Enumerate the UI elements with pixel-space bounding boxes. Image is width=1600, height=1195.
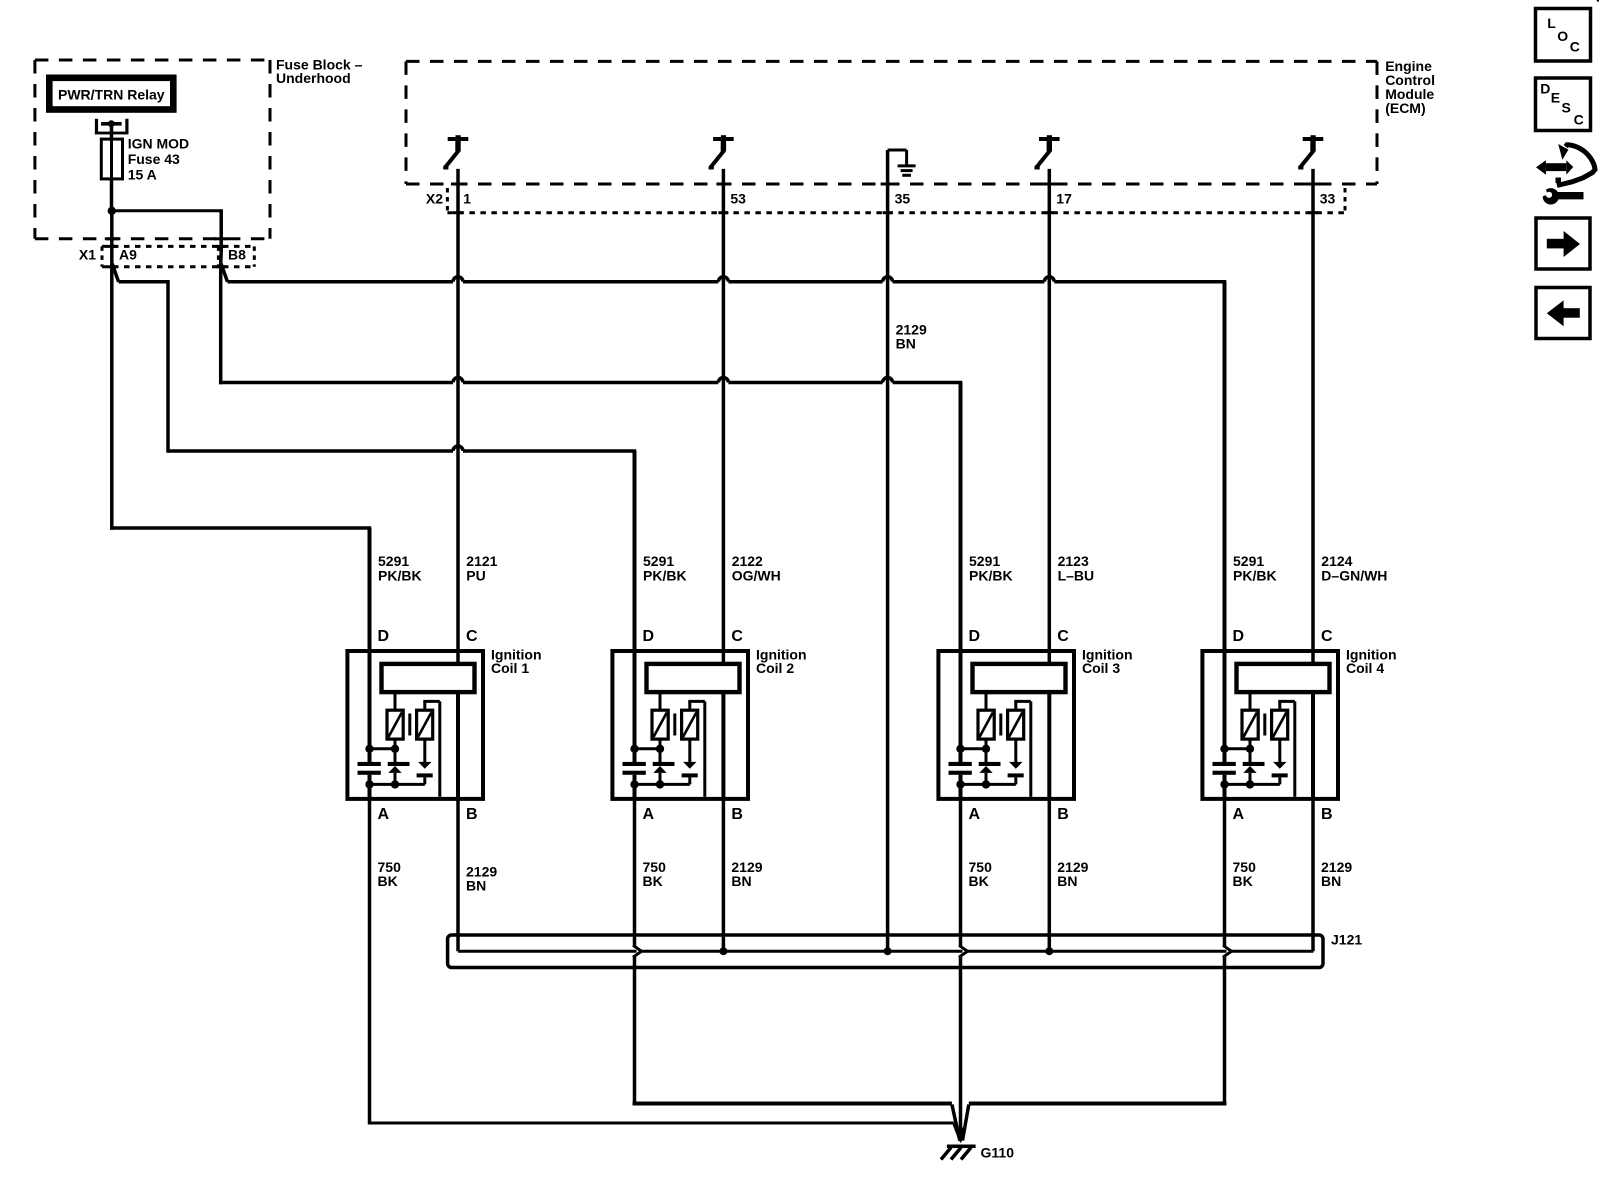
ignition coil 1: internal ground links and junctions <box>365 745 425 789</box>
svg-text:B: B <box>1057 806 1069 823</box>
svg-text:PK/BK: PK/BK <box>643 568 687 584</box>
svg-text:PWR/TRN Relay: PWR/TRN Relay <box>58 87 165 103</box>
ignition coil 3: winding L (with slash) <box>978 694 994 739</box>
ignition coil 1: D wire through case (with capacitor break) <box>368 528 372 764</box>
ignition coil 3: D wire through case (with capacitor break) <box>959 383 963 764</box>
icon: diagnostic navigation (arrows and wrench) <box>1536 144 1595 205</box>
wire 750 BK: coil4 A to ground line <box>1223 799 1227 1106</box>
ignition coil 2: zener diode (middle branch) <box>653 739 675 784</box>
ignition coil 2: internal ground links and junctions <box>630 745 690 789</box>
ignition coil 3: winding R (with slash) and secondary tap <box>1008 701 1031 797</box>
label: IGN MOD Fuse 43 15 A <box>128 136 189 183</box>
icon: DESC button <box>1536 78 1591 131</box>
fuse IGN MOD Fuse 43 15A <box>101 139 122 179</box>
svg-text:1: 1 <box>463 191 471 207</box>
svg-text:C: C <box>1057 628 1069 645</box>
ignition coil 1: C wire below primary <box>456 692 460 801</box>
label: Engine Control Module (ECM) <box>1385 58 1435 116</box>
ECM driver (transistor output) for pin 33 <box>1298 135 1323 169</box>
icon: back arrow button <box>1536 288 1590 339</box>
svg-text:53: 53 <box>730 191 746 207</box>
wire 2129 BN: coil1 B to splice J121 <box>456 799 460 951</box>
pin labels D C A B (coil 1) <box>378 628 479 823</box>
wire: fuse to junction <box>110 179 114 211</box>
ignition coil 4: capacitor on A-wire <box>1213 762 1236 775</box>
wire 2129 BN: coil3 B to splice J121 <box>1048 799 1052 951</box>
ignition coil 3: primary winding box <box>973 664 1066 692</box>
ignition coil 3: internal ground links and junctions <box>956 745 1016 789</box>
wire 5291 PK/BK: X1-B8 branch to ignition coil 4 pin D <box>221 263 1227 282</box>
ignition coil 4: core bar <box>1263 714 1266 736</box>
svg-text:33: 33 <box>1320 191 1336 207</box>
label: Ignition Coil 2 <box>756 647 807 677</box>
connector X2 dotted row <box>447 188 1345 213</box>
svg-text:E: E <box>1551 90 1560 106</box>
svg-text:BN: BN <box>1057 873 1077 889</box>
svg-text:BK: BK <box>378 873 398 889</box>
svg-text:15 A: 15 A <box>128 167 157 183</box>
label: G110 <box>981 1145 1015 1161</box>
ground bus wires to G110 <box>633 1104 1227 1141</box>
ECM driver (transistor output) for pin 17 <box>1035 135 1060 169</box>
svg-text:BK: BK <box>643 873 663 889</box>
junction: fuse output node <box>108 207 116 215</box>
ignition coil 3: A wire below capacitor <box>959 775 963 801</box>
artifact: page corner tick <box>1597 0 1599 2</box>
svg-text:Coil 4: Coil 4 <box>1346 660 1384 676</box>
fuse block underhood dashed box <box>35 60 270 239</box>
wire 5291 PK/BK: X1-A9 to ignition coil 1 pin D <box>110 263 371 530</box>
labels: X1, A9, B8 <box>79 247 246 263</box>
svg-text:Coil 2: Coil 2 <box>756 660 794 676</box>
svg-text:Fuse 43: Fuse 43 <box>128 151 180 167</box>
ignition coil 3: capacitor on A-wire <box>949 762 972 775</box>
label: Fuse Block - Underhood <box>276 56 363 86</box>
svg-text:J121: J121 <box>1331 932 1362 948</box>
svg-text:B: B <box>731 806 743 823</box>
svg-text:D: D <box>1540 80 1550 96</box>
wire: fuse output through X1-A9 <box>110 211 114 263</box>
ignition coil 1: winding R (with slash) and secondary tap <box>417 701 440 797</box>
ignition coil 2: case <box>612 651 748 799</box>
svg-text:C: C <box>1321 628 1333 645</box>
labels: circuit 5291 PK/BK and 2123 L&#8211;BU (coil 3 feeds) <box>969 553 1094 584</box>
ignition coil 2: D wire through case (with capacitor break) <box>633 451 637 764</box>
svg-text:B: B <box>1321 806 1333 823</box>
wire 2121 PU: ECM X2-1 to coil1 pin C <box>456 169 460 663</box>
ground symbol G110 <box>941 1146 976 1159</box>
ignition coil 1: primary winding box <box>382 664 475 692</box>
svg-text:X2: X2 <box>426 191 443 207</box>
ignition coil 4: A wire below capacitor <box>1223 775 1227 801</box>
svg-text:BK: BK <box>969 873 989 889</box>
svg-text:O: O <box>1557 28 1568 44</box>
ignition coil 1: capacitor on A-wire <box>358 762 381 775</box>
ignition coil 2: A wire below capacitor <box>633 775 637 801</box>
ignition coil 2: capacitor on A-wire <box>623 762 646 775</box>
ECM driver (transistor output) for pin 1 <box>443 135 468 169</box>
wire 750 BK: coil1 A to ground G110 <box>370 799 961 1141</box>
wire 2129 BN: ECM X2-35 to splice J121 <box>886 150 890 951</box>
svg-text:PK/BK: PK/BK <box>1233 568 1277 584</box>
ignition coil 1: diode (right branch) <box>417 739 433 784</box>
labels: 750 BK and 2129 BN (coil 2 grounds) <box>643 859 763 889</box>
svg-text:(ECM): (ECM) <box>1385 100 1425 116</box>
ignition coil 2: diode (right branch) <box>682 739 698 784</box>
ignition coil 3: diode (right branch) <box>1008 739 1024 784</box>
svg-text:C: C <box>1570 39 1580 55</box>
svg-text:17: 17 <box>1056 191 1072 207</box>
wire 750 BK: coil2 A to ground line <box>633 799 637 1106</box>
ignition coil 4: case <box>1202 651 1338 799</box>
svg-text:Coil 1: Coil 1 <box>491 660 529 676</box>
wire: relay to fuse <box>110 126 114 140</box>
labels: 750 BK and 2129 BN (coil 3 grounds) <box>969 859 1089 889</box>
ignition coil 1: core bar <box>408 714 411 736</box>
ignition coil 4: winding R (with slash) and secondary tap <box>1272 701 1295 797</box>
relay PWR/TRN Relay box <box>49 78 173 110</box>
svg-text:D: D <box>643 628 655 645</box>
wire 750 BK: coil3 A to ground G110 <box>959 799 963 1141</box>
ignition coil 1: case <box>347 651 483 799</box>
ignition coil 3: C wire below primary <box>1047 692 1051 801</box>
ECM driver (transistor output) for pin 53 <box>709 135 734 169</box>
splice J121 bus bar <box>448 935 1323 968</box>
svg-text:A: A <box>1233 806 1245 823</box>
svg-text:A: A <box>643 806 655 823</box>
ignition coil 2: C wire below primary <box>721 692 725 801</box>
ignition coil 2: core bar <box>673 714 676 736</box>
svg-text:35: 35 <box>895 191 911 207</box>
pin labels D C A B (coil 4) <box>1233 628 1334 823</box>
ignition coil 3: core bar <box>999 714 1002 736</box>
svg-text:G110: G110 <box>981 1145 1015 1161</box>
label: J121 <box>1331 932 1362 948</box>
ignition coil 4: winding L (with slash) <box>1242 694 1258 739</box>
svg-text:BK: BK <box>1233 873 1253 889</box>
svg-text:D–GN/WH: D–GN/WH <box>1321 568 1387 584</box>
svg-text:A: A <box>969 806 981 823</box>
ignition coil 3: zener diode (middle branch) <box>979 739 1001 784</box>
labels: 750 BK and 2129 BN (coil 4 grounds) <box>1233 859 1353 889</box>
svg-text:D: D <box>1233 628 1245 645</box>
wire 5291 PK/BK: X1-B8 to ignition coil 3 pin D <box>219 263 962 385</box>
labels: circuit 5291 PK/BK and 2121 PU (coil 1 feeds) <box>378 553 498 584</box>
wire 2124 D-GN/WH: ECM X2-33 to coil4 pin C <box>1311 169 1315 663</box>
pin labels D C A B (coil 3) <box>969 628 1070 823</box>
connector X1 dotted box <box>102 246 254 266</box>
ignition coil 4: diode (right branch) <box>1272 739 1288 784</box>
ignition coil 2: winding R (with slash) and secondary tap <box>682 701 705 797</box>
ignition coil 4: zener diode (middle branch) <box>1243 739 1265 784</box>
label: Ignition Coil 4 <box>1346 647 1397 677</box>
svg-text:X1: X1 <box>79 247 96 263</box>
ignition coil 1: zener diode (middle branch) <box>388 739 410 784</box>
icon: LOC button <box>1536 9 1591 62</box>
wire 5291 PK/BK: X1-A9 branch to ignition coil 2 pin D <box>112 263 636 453</box>
ECM internal ground symbol (pin 35) <box>888 150 916 175</box>
ignition coil 4: D wire through case (with capacitor break) <box>1223 282 1227 764</box>
ignition coil 3: case <box>938 651 1074 799</box>
svg-text:Coil 3: Coil 3 <box>1082 660 1120 676</box>
wire: fuse output to X1-B8 <box>112 209 221 262</box>
svg-text:L: L <box>1547 15 1556 31</box>
ignition coil 2: winding L (with slash) <box>652 694 668 739</box>
svg-text:A9: A9 <box>119 247 137 263</box>
wire 2123 L-BU: ECM X2-17 to coil3 pin C <box>1048 169 1052 663</box>
ignition coil 4: primary winding box <box>1237 664 1330 692</box>
ignition coil 1: winding L (with slash) <box>387 694 403 739</box>
svg-text:OG/WH: OG/WH <box>732 568 781 584</box>
label: Ignition Coil 3 <box>1082 647 1133 677</box>
icon: next arrow button <box>1536 218 1590 269</box>
svg-text:BN: BN <box>896 336 916 352</box>
svg-text:PU: PU <box>466 568 485 584</box>
svg-text:PK/BK: PK/BK <box>378 568 422 584</box>
svg-text:D: D <box>378 628 390 645</box>
ECM dashed box <box>406 61 1377 184</box>
relay contact symbol <box>95 119 129 135</box>
ignition coil 4: internal ground links and junctions <box>1220 745 1280 789</box>
svg-text:B8: B8 <box>228 247 246 263</box>
svg-text:BN: BN <box>466 878 486 894</box>
svg-text:S: S <box>1562 100 1571 116</box>
svg-text:BN: BN <box>731 873 751 889</box>
svg-text:L–BU: L–BU <box>1058 568 1095 584</box>
svg-text:BN: BN <box>1321 873 1341 889</box>
label: Ignition Coil 1 <box>491 647 542 677</box>
svg-text:C: C <box>731 628 743 645</box>
svg-text:C: C <box>1574 111 1584 127</box>
ignition coil 1: A wire below capacitor <box>368 775 372 801</box>
svg-text:PK/BK: PK/BK <box>969 568 1013 584</box>
wire 2129 BN: coil4 B to splice J121 <box>1311 799 1315 951</box>
label: 2129 BN (ECM ground wire) <box>896 322 927 352</box>
svg-text:A: A <box>378 806 390 823</box>
labels: 750 BK and 2129 BN (coil 1 grounds) <box>378 859 498 894</box>
svg-text:C: C <box>466 628 478 645</box>
labels: circuit 5291 PK/BK and 2122 OG/WH (coil 2 feeds) <box>643 553 781 584</box>
svg-text:D: D <box>969 628 981 645</box>
svg-text:IGN MOD: IGN MOD <box>128 136 189 152</box>
svg-text:Underhood: Underhood <box>276 70 351 86</box>
labels: X2 and pin numbers 1 53 35 17 33 <box>426 191 1336 207</box>
ignition coil 4: C wire below primary <box>1311 692 1315 801</box>
ground arrowhead <box>955 1128 967 1144</box>
labels: circuit 5291 PK/BK and 2124 D&#8211;GN/WH (coil 4 feeds) <box>1233 553 1387 584</box>
ignition coil 2: primary winding box <box>647 664 740 692</box>
svg-text:B: B <box>466 806 478 823</box>
pin labels D C A B (coil 2) <box>643 628 744 823</box>
wire 2122 OG/WH: ECM X2-53 to coil2 pin C <box>722 169 726 663</box>
wire 2129 BN: coil2 B to splice J121 <box>722 799 726 951</box>
